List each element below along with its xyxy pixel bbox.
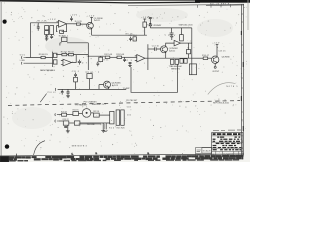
ground G1	[66, 125, 70, 133]
wire T1 to R22	[91, 112, 94, 114]
svg-text:R25 R26: R25 R26	[117, 127, 125, 129]
wire R21 to T1	[79, 113, 83, 115]
scan speckle noise	[3, 5, 247, 154]
plug P1 wires	[105, 123, 107, 129]
wire drop to C6	[171, 28, 173, 33]
component K1 box	[62, 37, 67, 41]
svg-text:R1 2.2K: R1 2.2K	[38, 21, 48, 23]
paper top edge	[0, 1, 200, 3]
svg-text:GAIN ADJ 600: GAIN ADJ 600	[179, 24, 194, 27]
resistor R26 tall	[121, 110, 125, 125]
resistor R12	[105, 56, 110, 58]
title block text rows	[213, 137, 242, 151]
resistor R5	[62, 53, 67, 55]
attenuator vertical wire	[52, 52, 54, 67]
paper edge right faint	[247, 0, 249, 30]
wire R22 right	[99, 114, 110, 116]
title block bottom cells	[216, 151, 239, 156]
photocopy mottle patches	[45, 37, 89, 55]
svg-text:C15 .1: C15 .1	[72, 71, 79, 73]
pad resistor P1	[170, 59, 174, 64]
border right small texture	[241, 14, 243, 148]
Q2 collector to U4	[166, 43, 174, 47]
transformer T1	[82, 109, 91, 118]
mid vertical rail x148	[147, 44, 149, 70]
svg-text:T PAD 600 OHM: T PAD 600 OHM	[169, 65, 182, 68]
Q2 internals	[162, 47, 166, 53]
capacitor C15 top	[74, 73, 77, 76]
resistor R4	[76, 23, 80, 25]
connector arc J2	[54, 88, 56, 91]
ground wire loop down left	[131, 65, 178, 93]
svg-text:502: 502	[127, 106, 131, 108]
wire drop to R10	[180, 28, 182, 35]
component box Z1	[189, 64, 196, 75]
wire tel upper	[59, 114, 62, 116]
wire top right row	[148, 48, 153, 50]
svg-text:R2 600 1%: R2 600 1%	[39, 54, 48, 56]
svg-text:+15V: +15V	[141, 17, 149, 19]
pad resistor P3	[180, 59, 183, 64]
wire R23 to C20	[69, 122, 75, 124]
border right fold marks	[241, 31, 243, 131]
wire R16 to Q3	[208, 57, 212, 59]
border right double line	[241, 4, 243, 157]
bottom dark corner left	[0, 156, 9, 162]
svg-text:SEE NOTE 3: SEE NOTE 3	[72, 145, 88, 147]
svg-text:P/O TEL SET: P/O TEL SET	[126, 100, 138, 102]
resistor R17 vertical	[74, 77, 78, 82]
svg-text:SEE NOTES 1 AND 4: SEE NOTES 1 AND 4	[40, 69, 56, 72]
long wire lower y89	[58, 88, 127, 90]
cable curve bottom left	[34, 141, 45, 155]
svg-text:A4521: A4521	[94, 19, 100, 22]
resistor R23	[63, 121, 69, 125]
resistor R20	[62, 113, 67, 116]
paper top-right dark blob	[195, 0, 250, 3]
capacitor C12	[153, 47, 160, 51]
wire mid row right	[88, 55, 105, 57]
resistor R6	[69, 53, 74, 55]
approval marks	[197, 150, 201, 155]
svg-text:600: 600	[20, 54, 25, 56]
dashed chassis line	[8, 101, 240, 106]
resistor R21	[73, 112, 79, 116]
small cap C8	[96, 62, 99, 67]
resistor R8 vertical	[143, 22, 147, 27]
svg-text:NO. 23 REV A: NO. 23 REV A	[210, 3, 230, 6]
svg-text:+15V: +15V	[168, 35, 176, 37]
transistor Q1	[87, 22, 94, 29]
svg-text:C12 10: C12 10	[152, 45, 160, 47]
wire input lower	[26, 62, 53, 64]
transistor Q2	[161, 46, 168, 53]
svg-text:R12 5.6K: R12 5.6K	[104, 54, 113, 56]
svg-text:R5 1K: R5 1K	[61, 52, 68, 54]
diode CR1	[149, 21, 151, 28]
attenuator box B1	[53, 53, 57, 57]
Q4 internals	[105, 82, 109, 88]
plug P1 arcs	[104, 130, 107, 131]
transistor Q3	[212, 56, 219, 63]
resistor R16	[203, 57, 208, 60]
border top second line	[206, 4, 244, 7]
mid vertical rail x88	[87, 43, 89, 70]
resistor R15	[186, 50, 190, 54]
wire R7 stub	[100, 56, 102, 57]
svg-text:C13 25: C13 25	[218, 51, 225, 53]
border bottom line	[0, 154, 244, 156]
punch hole lower	[5, 144, 9, 148]
capacitor C20 box	[74, 121, 80, 125]
wire tel lower	[59, 120, 63, 122]
svg-text:C11 R14: C11 R14	[128, 35, 136, 37]
component box M1	[87, 74, 92, 79]
svg-text:NOTE 5: NOTE 5	[226, 86, 237, 88]
bottom border tick	[16, 154, 18, 159]
op-amp U1	[59, 20, 67, 27]
svg-text:Q3 2N930: Q3 2N930	[222, 57, 231, 59]
punch hole upper	[3, 20, 7, 24]
wire U1 output	[67, 23, 77, 25]
title block header row	[213, 133, 241, 135]
capacitor C4 top	[149, 16, 152, 20]
Q1 emitter wire to rail	[91, 28, 93, 35]
svg-text:A4523: A4523	[112, 84, 118, 87]
title block left extension lines	[196, 147, 212, 156]
capacitor C11 hang	[129, 37, 132, 42]
resistor R14 hang	[133, 37, 136, 41]
U3 input stubs	[135, 56, 137, 61]
input jack J1 tip	[22, 56, 26, 59]
border tick marks top	[198, 5, 231, 8]
capacitor C3 supply	[70, 16, 73, 21]
svg-text:R13 5.6K: R13 5.6K	[116, 54, 125, 56]
svg-text:+15V: +15V	[212, 43, 220, 45]
border top line	[128, 4, 244, 5]
U2 input stubs	[61, 61, 63, 65]
right vertical rail x192	[191, 44, 193, 75]
jack J3 ring	[55, 120, 59, 123]
bottom band faint row	[10, 159, 239, 161]
svg-text:A4522: A4522	[169, 50, 175, 53]
title block row lines	[212, 136, 243, 152]
capacitor C6	[170, 33, 174, 37]
transistor Q4	[104, 81, 111, 88]
svg-text:R6 1K: R6 1K	[68, 52, 75, 54]
svg-text:R4 470: R4 470	[75, 21, 83, 23]
Q1 collector wire	[90, 18, 93, 24]
resistor R13	[117, 56, 122, 58]
wire U2 output	[72, 55, 77, 63]
resistor R3 feedback	[60, 30, 64, 33]
svg-text:SCALE: SCALE	[203, 150, 212, 153]
svg-text:LINE: LINE	[20, 60, 26, 62]
wire C20 right	[80, 123, 110, 124]
resistor R24 tall	[110, 111, 114, 124]
resistor R25 tall	[116, 110, 120, 125]
op-amp U3	[137, 55, 145, 62]
bottom note band rows	[9, 155, 243, 160]
svg-text:CR1 IN457: CR1 IN457	[153, 25, 162, 27]
wire left vertical rail	[29, 23, 31, 58]
left paper edge line	[0, 2, 2, 161]
U1 input stubs	[57, 22, 59, 26]
marks above title block	[213, 129, 241, 132]
svg-text:R24: R24	[109, 128, 114, 130]
Q3 internals	[213, 57, 217, 63]
capacitor C10 ground	[128, 62, 131, 66]
svg-text:+15V: +15V	[48, 19, 57, 21]
svg-text:+15V: +15V	[70, 14, 78, 16]
wire R17	[75, 76, 77, 90]
input jack J1 ring	[22, 62, 26, 65]
svg-text:TEL LINE: TEL LINE	[87, 124, 96, 126]
wire gain corner down	[191, 28, 193, 44]
svg-text:TP1 LVL: TP1 LVL	[85, 72, 93, 74]
wire U4 output	[181, 42, 192, 44]
junction dot rail x88	[88, 56, 89, 57]
capacitor C21 ground	[64, 126, 67, 127]
T1 inner dot	[86, 112, 88, 114]
wire K1 to rail	[60, 43, 88, 46]
faint balloon arc right	[208, 83, 236, 95]
ground G2	[101, 124, 105, 133]
Q1 internals	[88, 23, 92, 29]
wire tel top link	[79, 123, 102, 125]
op-amp U4	[174, 40, 181, 46]
svg-text:P/O J2: P/O J2	[48, 92, 56, 94]
resistor network box A3	[50, 26, 54, 35]
capacitor C2 to ground	[45, 35, 48, 41]
wire lower right row	[148, 57, 192, 59]
pad resistor P2	[175, 59, 179, 64]
wire gain rail y28	[150, 27, 192, 29]
Q3 emitter terminal	[214, 63, 216, 66]
wire R4 to Q1	[80, 24, 86, 26]
Q4 emitter wire	[108, 87, 110, 89]
extra speckle	[5, 18, 8, 21]
capacitor C16 stub	[61, 89, 64, 94]
capacitor C9	[123, 57, 126, 62]
capacitor C1	[37, 23, 40, 31]
scale box	[202, 148, 212, 154]
paper top edge upper sliver	[0, 0, 250, 2]
wire U3 output	[145, 57, 148, 59]
pointer line J2	[40, 94, 46, 103]
wire M1 down	[89, 79, 91, 90]
resistor R22	[94, 113, 100, 117]
wire R5R6 row	[56, 54, 88, 56]
jack J3 tip	[55, 113, 59, 116]
resistor R2 input	[41, 56, 45, 58]
Q2 emitter down	[165, 52, 167, 58]
pad resistor P4	[184, 59, 187, 64]
wire +15 stub U4	[171, 37, 174, 40]
wire R20 to R21	[67, 114, 73, 116]
svg-text:101: 101	[127, 114, 131, 116]
title block outline	[212, 133, 243, 157]
svg-text:OUTPUT: OUTPUT	[212, 71, 220, 73]
resistor R7 vertical	[99, 57, 103, 61]
svg-text:R11: R11	[103, 59, 108, 61]
svg-text:REF DWG A-1001: REF DWG A-1001	[213, 101, 229, 104]
resistor network box A2	[45, 31, 49, 35]
svg-text:SEE NOTE 2: SEE NOTE 2	[171, 69, 180, 71]
capacitor C2b to ground	[50, 35, 53, 39]
svg-text:P/O CHASSIS: P/O CHASSIS	[84, 100, 98, 103]
wire R13 to C9	[122, 56, 137, 58]
wire R12 to R13	[110, 56, 117, 58]
svg-text:HANDSET CKT: HANDSET CKT	[92, 103, 107, 106]
capacitor C7	[78, 60, 81, 65]
Q4 base wire	[99, 85, 104, 90]
U1 feedback wire	[57, 24, 67, 32]
resistor network box A1	[45, 26, 49, 30]
svg-text:P/O HANDSET: P/O HANDSET	[75, 104, 88, 107]
wire output row	[192, 57, 203, 59]
svg-text:C4: C4	[153, 18, 159, 20]
Q3 collector wire	[216, 44, 219, 57]
long rail wire y35	[92, 34, 147, 36]
svg-text:TO AMP: TO AMP	[123, 87, 131, 90]
wire input upper	[26, 57, 53, 59]
svg-text:R16 47: R16 47	[202, 55, 210, 57]
wire top rail into U1	[30, 22, 58, 24]
terminal E1	[214, 66, 216, 68]
wire R15 stub	[188, 43, 190, 58]
attenuator box B2	[53, 60, 57, 64]
capacitor C14 ground	[66, 89, 70, 97]
resistor R10	[180, 35, 184, 41]
op-amp U2	[63, 59, 72, 66]
wire R8 to rail	[143, 19, 146, 35]
